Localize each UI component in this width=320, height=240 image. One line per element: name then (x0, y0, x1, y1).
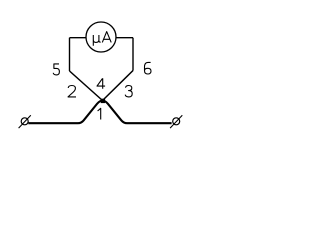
terminal right slash (170, 115, 182, 128)
wire bottom left horizontal with rise to junction (28, 101, 102, 124)
pin label 4 (97, 78, 105, 89)
wire bottom right horizontal with rise to junction (103, 101, 172, 124)
junction node dot (101, 99, 105, 103)
pin label 5 (53, 64, 59, 75)
terminal right circle (173, 118, 180, 125)
wire left vertical (pin 5 lead) (69, 38, 71, 71)
wire left diagonal (pin 2 lead) (70, 71, 103, 101)
wire top-left horizontal from left vertical to meter (70, 37, 87, 39)
terminal left slash (19, 115, 31, 128)
wire right diagonal (pin 3 lead) (103, 71, 134, 101)
terminal left circle (21, 118, 28, 125)
wire right vertical (pin 6 lead) (132, 38, 134, 71)
meter U1 label µ (93, 35, 100, 46)
pin label 3 (125, 86, 132, 97)
wire top-right horizontal from meter to right vertical (116, 37, 133, 39)
meter U1 label A (102, 32, 111, 43)
meter U1 circle (86, 22, 116, 52)
pin label 1 (98, 108, 101, 119)
pin label 2 (68, 86, 76, 97)
pin label 6 (145, 62, 152, 74)
